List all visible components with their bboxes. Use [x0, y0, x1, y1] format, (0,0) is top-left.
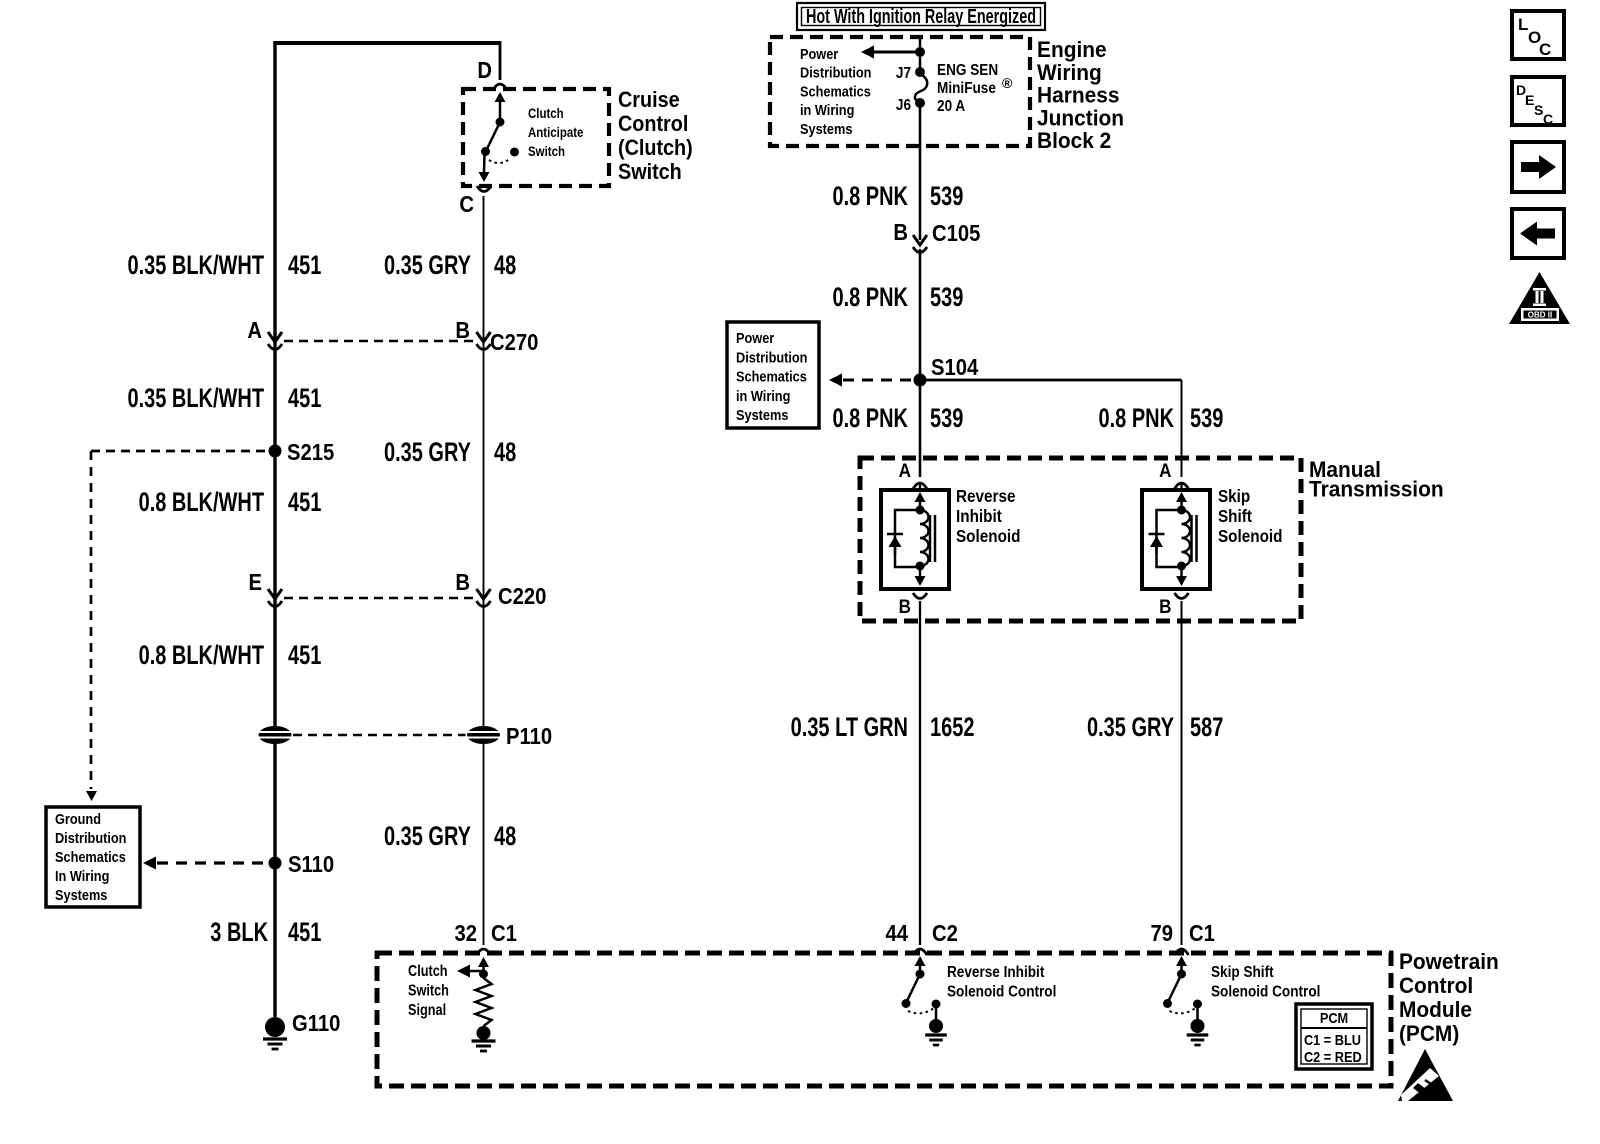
svg-text:PCM: PCM — [1320, 1009, 1348, 1026]
svg-text:0.8 PNK: 0.8 PNK — [832, 282, 908, 313]
svg-text:B: B — [455, 569, 470, 596]
svg-text:MiniFuse: MiniFuse — [937, 80, 996, 97]
svg-text:451: 451 — [288, 917, 321, 948]
svg-text:J7: J7 — [896, 65, 911, 82]
svg-text:Harness: Harness — [1037, 83, 1119, 108]
svg-text:1652: 1652 — [930, 712, 974, 743]
svg-text:0.35 GRY: 0.35 GRY — [384, 437, 471, 468]
svg-text:Solenoid Control: Solenoid Control — [947, 984, 1056, 1001]
svg-text:20 A: 20 A — [937, 98, 965, 115]
svg-text:Distribution: Distribution — [736, 348, 807, 365]
svg-text:79: 79 — [1151, 920, 1174, 947]
svg-text:B: B — [455, 317, 470, 344]
svg-text:E: E — [1525, 92, 1534, 108]
svg-text:A: A — [899, 460, 911, 481]
svg-text:Inhibit: Inhibit — [956, 506, 1002, 526]
svg-text:L: L — [1518, 15, 1528, 34]
svg-text:Systems: Systems — [736, 406, 789, 423]
svg-text:0.8 PNK: 0.8 PNK — [832, 181, 908, 212]
svg-text:Reverse Inhibit: Reverse Inhibit — [947, 964, 1044, 981]
svg-text:Wiring: Wiring — [1037, 60, 1102, 85]
svg-text:(Clutch): (Clutch) — [618, 136, 693, 160]
svg-text:0.8 PNK: 0.8 PNK — [832, 403, 908, 434]
svg-text:0.8 BLK/WHT: 0.8 BLK/WHT — [139, 640, 265, 671]
svg-text:0.35 GRY: 0.35 GRY — [384, 250, 471, 281]
svg-text:Schematics: Schematics — [800, 82, 871, 99]
svg-text:Power: Power — [800, 45, 839, 62]
svg-text:C2 = RED: C2 = RED — [1304, 1048, 1362, 1065]
svg-text:Transmission: Transmission — [1309, 477, 1444, 502]
svg-text:D: D — [477, 57, 492, 84]
svg-text:B: B — [1159, 596, 1171, 617]
svg-text:0.35 GRY: 0.35 GRY — [1087, 712, 1174, 743]
svg-text:Schematics: Schematics — [736, 368, 807, 385]
svg-text:C2: C2 — [932, 920, 958, 947]
svg-text:in Wiring: in Wiring — [800, 101, 854, 118]
svg-text:S110: S110 — [288, 851, 334, 878]
svg-text:®: ® — [1002, 75, 1013, 91]
svg-text:0.35 GRY: 0.35 GRY — [384, 821, 471, 852]
svg-text:Systems: Systems — [800, 120, 853, 137]
svg-text:0.35 BLK/WHT: 0.35 BLK/WHT — [127, 383, 264, 414]
svg-text:32: 32 — [454, 920, 477, 947]
svg-text:G110: G110 — [292, 1010, 340, 1037]
svg-text:C105: C105 — [932, 220, 980, 247]
svg-text:(PCM): (PCM) — [1399, 1022, 1459, 1047]
svg-text:Engine: Engine — [1037, 38, 1107, 63]
svg-text:Distribution: Distribution — [800, 64, 871, 81]
svg-text:In Wiring: In Wiring — [55, 867, 109, 884]
svg-text:Powetrain: Powetrain — [1399, 950, 1499, 975]
svg-text:Switch: Switch — [528, 144, 565, 159]
svg-text:0.8 BLK/WHT: 0.8 BLK/WHT — [139, 487, 265, 518]
svg-text:in Wiring: in Wiring — [736, 387, 790, 404]
svg-text:44: 44 — [885, 920, 908, 947]
svg-text:J6: J6 — [896, 97, 911, 114]
svg-text:Control: Control — [618, 112, 688, 136]
svg-text:Reverse: Reverse — [956, 486, 1015, 506]
svg-text:C1: C1 — [1189, 920, 1215, 947]
svg-text:Power: Power — [736, 329, 775, 346]
svg-text:C1: C1 — [491, 920, 517, 947]
svg-text:B: B — [893, 219, 908, 246]
svg-text:Hot With Ignition Relay Energi: Hot With Ignition Relay Energized — [806, 5, 1036, 28]
svg-text:Junction: Junction — [1037, 106, 1124, 131]
svg-text:Anticipate: Anticipate — [528, 125, 583, 140]
svg-text:C: C — [1543, 111, 1553, 127]
svg-text:451: 451 — [288, 640, 321, 671]
svg-text:S215: S215 — [287, 439, 334, 466]
svg-text:P110: P110 — [506, 723, 552, 750]
svg-text:C1 = BLU: C1 = BLU — [1304, 1031, 1361, 1048]
svg-text:Switch: Switch — [618, 160, 682, 184]
svg-text:C: C — [459, 191, 474, 218]
svg-text:451: 451 — [288, 250, 321, 281]
svg-text:539: 539 — [930, 181, 963, 212]
svg-text:451: 451 — [288, 487, 321, 518]
svg-text:Signal: Signal — [408, 1002, 446, 1019]
svg-text:Skip: Skip — [1218, 486, 1250, 506]
svg-text:Switch: Switch — [408, 982, 449, 999]
svg-text:539: 539 — [930, 282, 963, 313]
svg-text:OBD II: OBD II — [1528, 311, 1552, 320]
svg-text:Distribution: Distribution — [55, 829, 126, 846]
svg-text:S104: S104 — [931, 354, 978, 381]
svg-text:0.35 LT GRN: 0.35 LT GRN — [791, 712, 908, 743]
svg-text:A: A — [247, 317, 262, 344]
svg-text:B: B — [899, 596, 911, 617]
svg-text:Skip Shift: Skip Shift — [1211, 964, 1274, 981]
svg-text:451: 451 — [288, 383, 321, 414]
svg-text:587: 587 — [1190, 712, 1223, 743]
svg-text:A: A — [1159, 460, 1171, 481]
svg-text:Solenoid Control: Solenoid Control — [1211, 984, 1320, 1001]
svg-text:E: E — [248, 569, 262, 596]
svg-text:Schematics: Schematics — [55, 848, 126, 865]
svg-text:Clutch: Clutch — [408, 963, 447, 980]
svg-text:Solenoid: Solenoid — [1218, 526, 1283, 546]
svg-text:S: S — [1534, 102, 1543, 118]
svg-text:Clutch: Clutch — [528, 106, 564, 121]
svg-text:0.35 BLK/WHT: 0.35 BLK/WHT — [127, 250, 264, 281]
svg-text:Ground: Ground — [55, 810, 101, 827]
svg-text:Block 2: Block 2 — [1037, 129, 1111, 154]
svg-text:539: 539 — [930, 403, 963, 434]
svg-text:Cruise: Cruise — [618, 88, 680, 112]
svg-text:Solenoid: Solenoid — [956, 526, 1021, 546]
svg-text:48: 48 — [494, 250, 516, 281]
svg-text:3 BLK: 3 BLK — [210, 917, 268, 948]
svg-text:0.8 PNK: 0.8 PNK — [1098, 403, 1174, 434]
svg-text:Systems: Systems — [55, 886, 108, 903]
svg-text:539: 539 — [1190, 403, 1223, 434]
svg-text:C220: C220 — [498, 583, 546, 610]
svg-text:Shift: Shift — [1218, 506, 1252, 526]
svg-text:48: 48 — [494, 821, 516, 852]
svg-text:Module: Module — [1399, 998, 1472, 1023]
svg-text:Control: Control — [1399, 974, 1473, 999]
svg-text:ENG SEN: ENG SEN — [937, 62, 998, 79]
svg-text:C270: C270 — [490, 329, 538, 356]
svg-text:C: C — [1539, 40, 1551, 59]
svg-text:48: 48 — [494, 437, 516, 468]
